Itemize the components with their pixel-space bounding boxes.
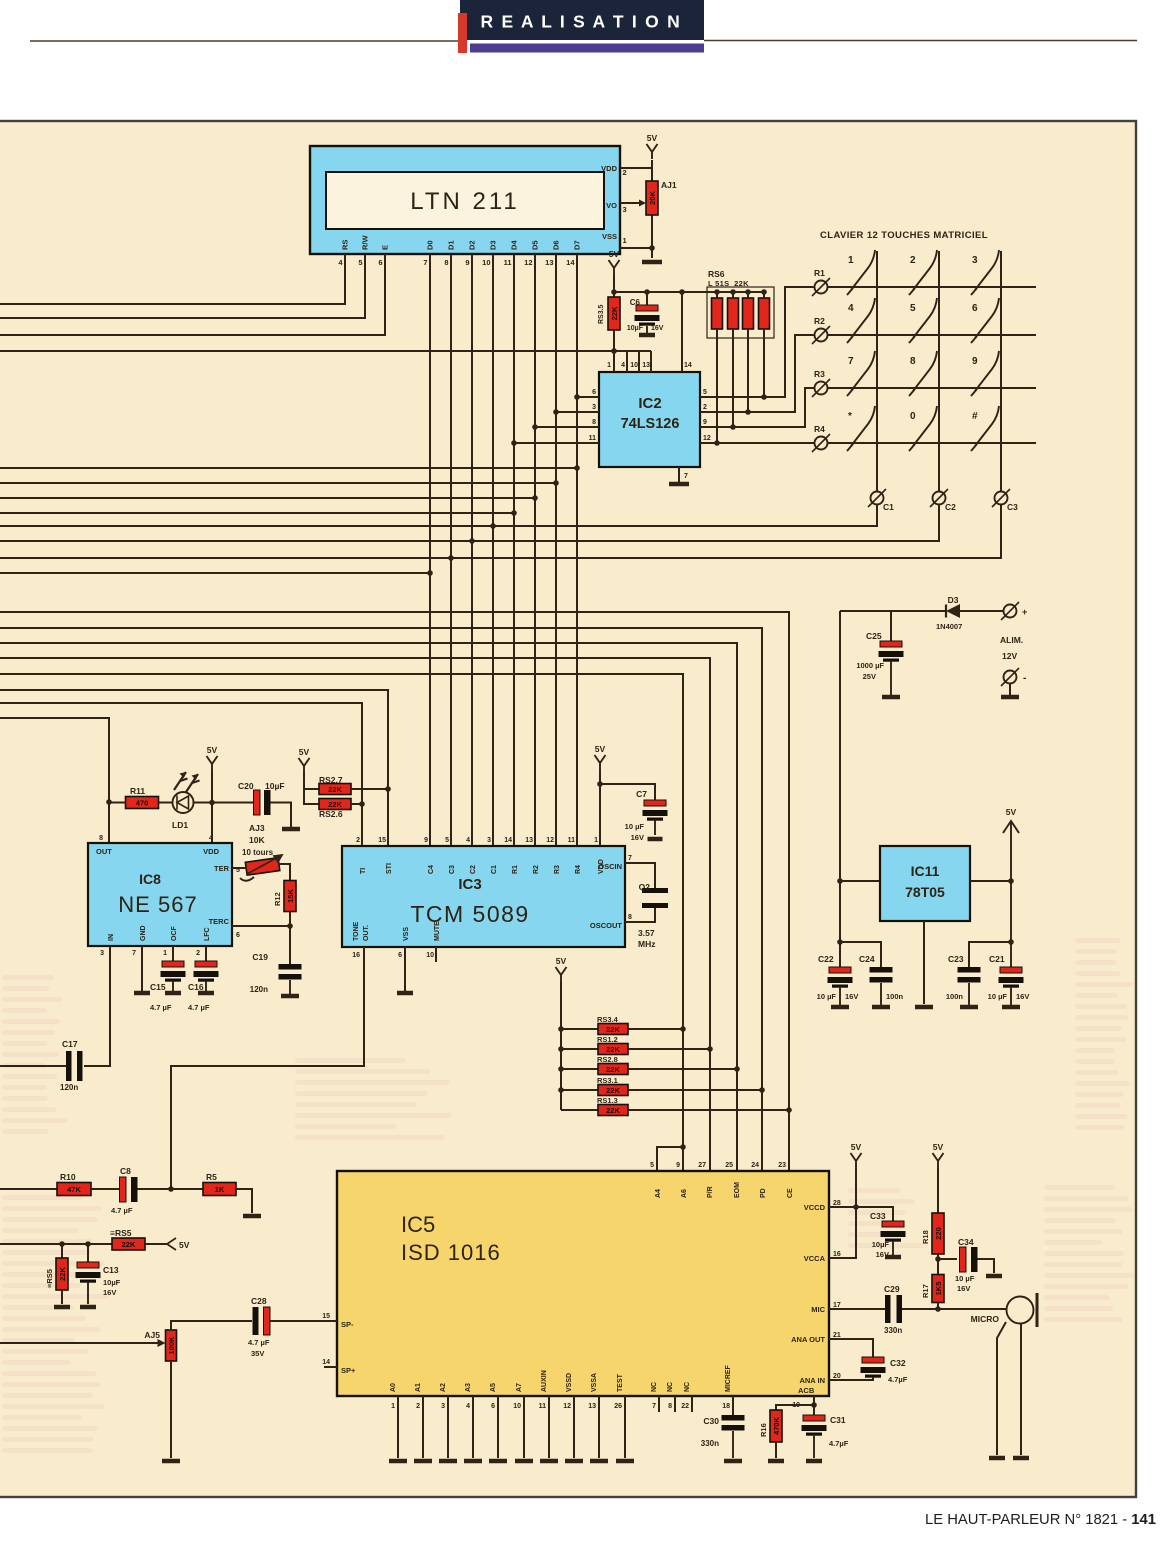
svg-text:5V: 5V — [647, 133, 658, 143]
pin labels IC5 top — [650, 1162, 794, 1198]
wire IC2 pin9 to row R3 — [700, 388, 814, 427]
wire keyboard column C1 — [876, 251, 878, 491]
wire data D6 vertical — [555, 254, 557, 846]
wire IC5 PD pin24 net — [0, 628, 762, 1171]
svg-text:OUT: OUT — [96, 847, 112, 856]
power 5V at IC8 VDD — [207, 745, 218, 771]
junction D6 bus — [553, 480, 559, 486]
trimmer AJ5 100K — [144, 1330, 176, 1361]
label ALIM 12V — [1000, 635, 1023, 661]
svg-text:1: 1 — [391, 1403, 395, 1410]
wire RS2.6 to TI — [351, 803, 362, 805]
svg-text:R17: R17 — [921, 1284, 930, 1298]
resistor R11 470 — [126, 786, 159, 809]
wiper arrow AJ1 — [620, 200, 646, 207]
svg-text:ACB: ACB — [798, 1386, 815, 1395]
svg-text:5V: 5V — [595, 744, 606, 754]
junction RS2.8 — [734, 1066, 740, 1072]
svg-text:22K: 22K — [328, 785, 342, 794]
wire C8 to R5 — [138, 1188, 204, 1190]
ground IC5 pin 12 — [565, 1459, 583, 1464]
svg-text:R E A L I S A T I O N: R E A L I S A T I O N — [480, 12, 681, 32]
power arrow 5V at RS5 — [167, 1238, 190, 1250]
svg-text:IC2: IC2 — [638, 395, 661, 412]
svg-text:3: 3 — [972, 255, 978, 266]
wire RS2.8 row — [561, 1068, 598, 1070]
ground C33 — [885, 1255, 901, 1260]
svg-text:CE: CE — [787, 1188, 794, 1198]
wire data D7 vertical — [576, 254, 578, 846]
junction D line pin 3 — [553, 409, 559, 415]
wire IC5 pin 2 stub — [422, 1396, 424, 1458]
svg-text:8: 8 — [668, 1403, 672, 1410]
svg-text:EOM: EOM — [734, 1182, 741, 1198]
diode D3 1N4007 — [891, 595, 1003, 631]
junction stack RS1.2 — [558, 1046, 564, 1052]
wire IC2 pin5 to row R1 — [700, 287, 814, 397]
header purple bar — [470, 44, 704, 53]
capacitor C8 4.7uF — [111, 1166, 138, 1215]
wire RS5v bottom — [61, 1290, 63, 1304]
wire RS6-3 bottom — [747, 329, 749, 412]
key switch * — [847, 406, 875, 451]
svg-text:RS1.3: RS1.3 — [597, 1096, 618, 1105]
connector ALIM + — [1001, 602, 1027, 620]
svg-text:74LS126: 74LS126 — [621, 416, 680, 432]
resistor R10 47K — [57, 1172, 91, 1196]
pin labels IC3 bottom-right — [352, 855, 632, 959]
header navy title box — [460, 0, 704, 40]
svg-text:SP-: SP- — [341, 1320, 354, 1329]
resistor RS1.2 22K — [597, 1035, 628, 1055]
junction D4 bus — [511, 510, 517, 516]
wire wiper line to AJ5 — [0, 1342, 161, 1344]
header rule left — [30, 40, 458, 42]
ground IC5 pin 13 — [590, 1459, 608, 1464]
resistor RS1.3 22K — [597, 1096, 628, 1116]
wire LTN pin1 VSS — [620, 247, 652, 249]
wire IC3 STI net — [0, 690, 388, 846]
junction RS6-4 row — [761, 394, 767, 400]
wire R18-R17 — [937, 1254, 939, 1275]
svg-text:ANA OUT: ANA OUT — [791, 1335, 825, 1344]
svg-text:6: 6 — [491, 1403, 495, 1410]
junction pin19-R16 — [811, 1402, 817, 1408]
svg-text:16V: 16V — [1016, 992, 1029, 1001]
wire IC2 left pin 3 — [556, 411, 599, 413]
wire E line pin6 — [0, 254, 385, 335]
wire IC5 pin19 stub — [813, 1396, 815, 1415]
svg-text:MICRO: MICRO — [971, 1314, 1000, 1324]
wire C34 branch — [938, 1258, 957, 1260]
wire IC3 TONE OUT net — [171, 947, 364, 1189]
wire R5 to ground — [236, 1189, 252, 1213]
svg-text:15K: 15K — [286, 889, 295, 903]
svg-text:TER: TER — [214, 864, 230, 873]
wire data D4 vertical — [513, 254, 515, 846]
junction RS6-1 row — [714, 440, 720, 446]
svg-text:R1: R1 — [814, 268, 825, 278]
svg-text:SP+: SP+ — [341, 1366, 356, 1375]
svg-text:GND: GND — [140, 925, 147, 941]
key switch 9 — [971, 351, 999, 396]
svg-text:14: 14 — [566, 258, 575, 267]
svg-text:3.57: 3.57 — [638, 928, 655, 938]
svg-text:R4: R4 — [814, 424, 825, 434]
wire IC5 pin 4 stub — [472, 1396, 474, 1458]
wire supply rail — [840, 610, 891, 612]
resistor R16 470K — [759, 1410, 782, 1442]
wire keyboard row R3 — [828, 387, 1036, 389]
junction 5V-LED line — [209, 800, 215, 806]
svg-text:NC: NC — [684, 1382, 691, 1392]
wire bus D6 horizontal — [0, 482, 556, 484]
svg-text:ANA IN: ANA IN — [799, 1376, 825, 1385]
svg-text:10K: 10K — [249, 835, 265, 845]
svg-text:1000 µF: 1000 µF — [856, 661, 884, 670]
capacitor C25 1000uF — [856, 631, 903, 695]
svg-text:R3: R3 — [554, 865, 561, 874]
svg-text:C1: C1 — [883, 502, 894, 512]
svg-text:120n: 120n — [60, 1083, 78, 1092]
ground C31 — [806, 1459, 822, 1464]
svg-text:16V: 16V — [631, 833, 644, 842]
svg-text:PD: PD — [760, 1188, 767, 1198]
svg-text:470: 470 — [136, 799, 149, 808]
svg-text:2: 2 — [196, 950, 200, 957]
junction RS2.6-TI — [359, 801, 365, 807]
wire C23 branch — [969, 942, 1011, 967]
wire R/W line pin5 — [0, 254, 365, 318]
svg-text:6: 6 — [398, 952, 402, 959]
svg-text:1: 1 — [163, 950, 167, 957]
capacitor C17 120n — [60, 1039, 83, 1092]
svg-text:9: 9 — [465, 258, 469, 267]
svg-text:5V: 5V — [299, 747, 310, 757]
wire IC2 pin12 to row R4 — [700, 442, 814, 444]
ground C20 — [282, 827, 300, 832]
capacitor C23 100n — [946, 954, 981, 1005]
pin labels IC5 bottom — [390, 1364, 732, 1410]
svg-text:13: 13 — [588, 1403, 596, 1410]
svg-text:IC5: IC5 — [401, 1212, 435, 1237]
svg-text:C24: C24 — [859, 954, 875, 964]
key switch 6 — [971, 298, 999, 343]
junction D3 bus — [490, 523, 496, 529]
svg-text:C16: C16 — [188, 982, 204, 992]
wire IC2 pin10 stub — [638, 351, 640, 372]
ground C34 — [986, 1274, 1002, 1279]
junction stack RS2.8 — [558, 1066, 564, 1072]
wire IC2 left pin 8 — [535, 426, 599, 428]
svg-text:35V: 35V — [251, 1349, 264, 1358]
capacitor C19 120n — [250, 952, 302, 994]
wire bus D5 horizontal — [0, 497, 535, 499]
power 5V above RS3.5 — [609, 249, 620, 275]
svg-text:7: 7 — [684, 473, 688, 480]
svg-text:16: 16 — [352, 952, 360, 959]
power 5V at AJ1 — [647, 133, 658, 159]
wire bus D2 / column C2 return — [0, 505, 939, 541]
svg-text:D1: D1 — [447, 240, 456, 250]
svg-text:470K: 470K — [772, 1416, 781, 1435]
svg-text:C7: C7 — [636, 789, 647, 799]
svg-text:3: 3 — [100, 950, 104, 957]
svg-text:3: 3 — [487, 837, 491, 844]
svg-text:OCF: OCF — [171, 926, 178, 942]
junction stack RS3.4 — [558, 1026, 564, 1032]
svg-text:22K: 22K — [606, 1106, 620, 1115]
svg-text:C8: C8 — [120, 1166, 131, 1176]
capacitor C32 4.7uF — [861, 1357, 908, 1384]
svg-text:CLAVIER 12 TOUCHES MATRICIEL: CLAVIER 12 TOUCHES MATRICIEL — [820, 230, 988, 241]
svg-text:6: 6 — [378, 258, 382, 267]
svg-text:VDD: VDD — [203, 847, 219, 856]
svg-text:RS3.4: RS3.4 — [597, 1015, 619, 1024]
svg-text:MICREF: MICREF — [725, 1364, 732, 1392]
wire keyboard row R1 — [828, 286, 1036, 288]
svg-text:5V: 5V — [556, 956, 567, 966]
svg-text:22K: 22K — [606, 1065, 620, 1074]
ground IC3 VSS — [397, 991, 413, 996]
svg-text:14: 14 — [504, 837, 512, 844]
junction RS1.3 — [786, 1107, 792, 1113]
wire IC5 pin 26 stub — [624, 1396, 626, 1458]
resistor RS5 22K vertical — [45, 1258, 68, 1290]
wire AJ5 bottom — [170, 1361, 172, 1458]
connector C2 — [930, 489, 956, 512]
resistor RS6-1 22K — [712, 298, 723, 329]
wire IC5 NC pin 8 stub — [674, 1396, 676, 1412]
svg-text:AJ3: AJ3 — [249, 823, 265, 833]
svg-text:10 µF: 10 µF — [955, 1274, 975, 1283]
svg-text:16V: 16V — [651, 325, 664, 332]
svg-text:R2: R2 — [533, 865, 540, 874]
svg-text:1K5: 1K5 — [934, 1282, 943, 1296]
svg-text:28: 28 — [833, 1200, 841, 1207]
junction IC11 in — [837, 878, 843, 884]
ground IC8 pin7 — [134, 991, 150, 996]
junction rail-RS3.5 — [611, 289, 617, 295]
svg-text:TERC: TERC — [209, 917, 230, 926]
microphone MICRO — [971, 1293, 1037, 1327]
svg-text:7: 7 — [652, 1403, 656, 1410]
svg-text:TCM 5089: TCM 5089 — [410, 901, 529, 927]
svg-text:#: # — [972, 411, 978, 422]
resistor RS3.5 22K — [598, 297, 620, 330]
ground RS5 vertical — [54, 1305, 70, 1310]
svg-text:VSSA: VSSA — [591, 1373, 598, 1392]
svg-text:NC: NC — [667, 1382, 674, 1392]
wire IC2 pin14 to 5V rail — [681, 292, 683, 372]
capacitor C16 4.7uF — [188, 961, 219, 1012]
key switch 7 — [847, 351, 875, 396]
wire RS2.8 to pin — [628, 1068, 737, 1070]
svg-text:6: 6 — [972, 303, 978, 314]
wire R17 to MIC line — [937, 1302, 939, 1309]
svg-text:16V: 16V — [845, 992, 858, 1001]
power 5V at RS2.7 — [299, 747, 310, 773]
wire IC2 pin13 stub — [650, 351, 652, 372]
svg-text:2: 2 — [910, 255, 916, 266]
ground C19 — [281, 994, 299, 999]
svg-text:10: 10 — [482, 258, 490, 267]
svg-text:VSS: VSS — [403, 927, 410, 941]
wire IC5 pin 3 stub — [447, 1396, 449, 1458]
key switch 8 — [909, 351, 937, 396]
junction IC2 pin1 bus — [611, 348, 617, 354]
svg-text:1: 1 — [848, 255, 854, 266]
wire C24 branch — [840, 942, 881, 967]
ground MICRO leg 1 — [989, 1456, 1005, 1461]
wire C32 to ANA IN — [829, 1377, 873, 1380]
wire MICRO leg 2 — [1020, 1324, 1022, 1455]
svg-text:D7: D7 — [573, 240, 582, 250]
resistor RS2.6 22K — [319, 799, 351, 820]
svg-text:4.7µF: 4.7µF — [888, 1375, 908, 1384]
svg-text:ISD 1016: ISD 1016 — [401, 1240, 501, 1265]
svg-text:1: 1 — [594, 837, 598, 844]
svg-text:C19: C19 — [252, 952, 268, 962]
wire OSCOUT — [625, 908, 655, 922]
ground IC5 pin 4 — [464, 1459, 482, 1464]
svg-text:R18: R18 — [921, 1230, 930, 1244]
junction RS3.4 — [680, 1026, 686, 1032]
capacitor C33 10uF — [870, 1211, 906, 1259]
svg-text:10 tours: 10 tours — [242, 848, 274, 857]
svg-text:C13: C13 — [103, 1265, 119, 1275]
svg-text:20K: 20K — [648, 191, 657, 205]
svg-text:R3: R3 — [814, 369, 825, 379]
svg-text:18: 18 — [722, 1403, 730, 1410]
svg-text:12: 12 — [703, 435, 711, 442]
svg-text:C25: C25 — [866, 631, 882, 641]
wire ALIM- stub — [1009, 684, 1011, 695]
wire ANA OUT — [829, 1339, 873, 1357]
junction C22 rail — [837, 939, 843, 945]
svg-text:OSCIN: OSCIN — [598, 862, 622, 871]
svg-text:1: 1 — [607, 362, 611, 369]
wire keyboard row R4 — [828, 442, 1036, 444]
wire IC11 output — [970, 880, 1011, 882]
svg-text:≡RS5: ≡RS5 — [110, 1228, 132, 1238]
svg-text:22K: 22K — [610, 306, 619, 320]
svg-text:10: 10 — [426, 952, 434, 959]
wire LTN pin2 VDD to 5V rail — [620, 167, 652, 169]
ground C23 — [960, 1005, 978, 1010]
wire RS2.7 left — [304, 788, 319, 790]
svg-text:C4: C4 — [428, 865, 435, 874]
wire IC11 gnd stub — [923, 921, 925, 1004]
resistor R12 15K — [273, 881, 296, 912]
svg-text:9: 9 — [676, 1162, 680, 1169]
op-amp IC2 74LS126 box — [599, 372, 700, 467]
svg-text:4: 4 — [466, 1403, 470, 1410]
svg-text:VDD: VDD — [601, 164, 617, 173]
junction C21 rail — [1008, 939, 1014, 945]
junction D7 bus — [574, 465, 580, 471]
wire bus D1 / column C3 return — [0, 505, 1001, 558]
wire IC2 enable bus — [0, 350, 651, 352]
svg-text:9: 9 — [972, 356, 978, 367]
wire IC5 CE pin23 net — [0, 612, 789, 1171]
pin labels IC3 top — [356, 837, 605, 874]
svg-text:C32: C32 — [890, 1358, 906, 1368]
svg-text:1: 1 — [623, 236, 627, 245]
svg-text:6: 6 — [592, 389, 596, 396]
junction RS6-3 row — [745, 409, 751, 415]
wire RS3.4 row — [561, 1028, 598, 1030]
wire IC8 pin7 stub — [141, 946, 143, 991]
svg-text:22K: 22K — [122, 1240, 136, 1249]
header rule right — [704, 40, 1137, 42]
wire IC5 P/R pin27 net — [0, 658, 710, 1171]
svg-text:25: 25 — [725, 1162, 733, 1169]
wire C28 to SP- — [270, 1320, 337, 1322]
wire IC5 pin 11 stub — [548, 1396, 550, 1458]
svg-text:7: 7 — [848, 356, 854, 367]
svg-text:RS2.6: RS2.6 — [319, 809, 343, 819]
key switch 2 — [909, 250, 937, 295]
ground AJ1 — [642, 260, 662, 265]
junction D0 bus — [427, 570, 433, 576]
svg-text:5V: 5V — [609, 249, 620, 259]
svg-text:4.7 µF: 4.7 µF — [150, 1003, 172, 1012]
svg-text:D3: D3 — [489, 240, 498, 250]
wire bus D3 / column C1 return — [0, 505, 877, 526]
wire MIC pin — [829, 1308, 885, 1310]
svg-text:15: 15 — [322, 1313, 330, 1320]
svg-text:C23: C23 — [948, 954, 964, 964]
wire keyboard column C2 — [938, 251, 940, 491]
svg-text:13: 13 — [642, 362, 650, 369]
svg-text:LD1: LD1 — [172, 820, 188, 830]
power 5V at RS3 stack — [556, 956, 567, 982]
svg-text:NE 567: NE 567 — [118, 892, 197, 917]
wire IC8 pin3 to C17 node — [84, 946, 110, 1066]
svg-text:C28: C28 — [251, 1296, 267, 1306]
svg-text:R/W: R/W — [361, 235, 370, 251]
svg-text:25V: 25V — [863, 672, 876, 681]
svg-text:IN: IN — [108, 934, 115, 941]
svg-text:5: 5 — [910, 303, 916, 314]
RS6 network outline — [707, 287, 774, 338]
wire RS6-1 top — [716, 292, 718, 298]
junction VCCD — [853, 1204, 859, 1210]
svg-text:78T05: 78T05 — [905, 884, 945, 900]
junction LED net — [106, 799, 112, 805]
wire C33 branch — [856, 1207, 893, 1221]
svg-text:10µF: 10µF — [627, 325, 644, 332]
wire VCCD — [829, 1206, 856, 1208]
svg-text:2: 2 — [623, 168, 627, 177]
wiper arrow AJ5 — [158, 1339, 166, 1347]
svg-text:10 µF: 10 µF — [988, 992, 1008, 1001]
resistor RS6-2 22K — [728, 298, 739, 329]
wire IC5 pin 13 stub — [598, 1396, 600, 1458]
svg-text:D3: D3 — [948, 595, 959, 605]
junction RS6-2 rail — [730, 289, 736, 295]
wire RS6-4 top — [763, 292, 765, 298]
svg-text:4: 4 — [466, 837, 470, 844]
junction RS3.1 — [759, 1087, 765, 1093]
wire IC5 pin 10 stub — [523, 1396, 525, 1458]
svg-text:11: 11 — [568, 837, 576, 844]
svg-text:4.7 µF: 4.7 µF — [248, 1338, 270, 1347]
svg-text:*: * — [848, 411, 852, 422]
wire 5V to R18 — [937, 1168, 939, 1213]
svg-text:4.7µF: 4.7µF — [829, 1439, 849, 1448]
